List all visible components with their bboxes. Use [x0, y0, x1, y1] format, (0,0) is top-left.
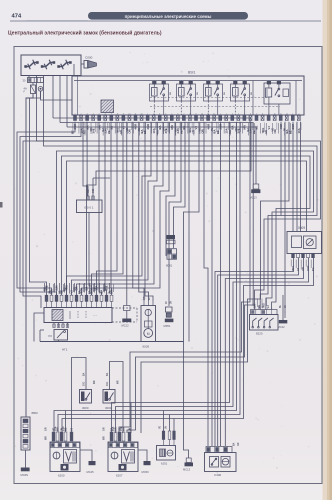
wire drop a	[99, 122, 102, 295]
BSI hatched module	[101, 100, 114, 113]
svg-text:7: 7	[76, 293, 77, 295]
svg-text:МС42: МС42	[278, 325, 286, 329]
BSI pin label ticks	[72, 123, 74, 134]
wire right join drop 281	[280, 122, 282, 216]
ECU box HF1	[44, 308, 112, 323]
wire long cross y171	[87, 122, 252, 295]
svg-text:10: 10	[128, 114, 130, 116]
switch 3001	[103, 390, 115, 404]
ECU sub relay P2	[54, 330, 68, 341]
svg-text:6200: 6200	[58, 474, 65, 478]
wire extra feeder 6207	[130, 403, 132, 434]
splice stack 8D01	[167, 235, 176, 239]
ECU pin label ticks	[44, 283, 46, 293]
BSI relay at 240	[231, 84, 250, 101]
ground MC12	[124, 306, 131, 311]
svg-text:4: 4	[165, 114, 166, 116]
svg-text:BA: BA	[231, 125, 235, 129]
svg-text:3000: 3000	[82, 406, 89, 410]
svg-text:4: 4	[238, 114, 239, 116]
svg-text:8800: 8800	[32, 411, 39, 415]
BSI relay at 159	[150, 84, 169, 101]
svg-text:GR: GR	[45, 427, 48, 431]
svg-text:1: 1	[147, 114, 148, 116]
wire stair continue b	[72, 241, 149, 295]
BSI relay 5 boxed	[264, 83, 290, 104]
BSI dashed link	[150, 97, 268, 99]
svg-text:8D01: 8D01	[166, 264, 173, 268]
connector MP01	[166, 307, 173, 312]
ECU inner marks	[69, 311, 71, 319]
BSI connector pin row	[74, 116, 77, 121]
svg-text:6: 6	[177, 114, 178, 116]
ground MC42	[282, 295, 284, 320]
svg-text:1: 1	[46, 293, 47, 295]
svg-text:принципиальные электрические с: принципиальные электрические схемы	[125, 14, 212, 19]
svg-text:2JN: 2JN	[62, 426, 65, 431]
connector row 8220	[251, 310, 278, 315]
wire battery loop A	[37, 76, 321, 310]
wire ECU sub down	[58, 340, 60, 342]
ECU driver hatched	[52, 310, 63, 321]
BSI inner left divider	[77, 76, 79, 115]
ground MC13 bottom	[184, 342, 189, 459]
svg-text:UB: UB	[87, 189, 90, 193]
wire battery sweep S3	[66, 76, 68, 128]
wire battery sweep S1	[52, 76, 54, 119]
svg-text:BA: BA	[85, 287, 89, 291]
svg-text:2: 2	[153, 114, 154, 116]
svg-text:BE: BE	[110, 125, 114, 129]
svg-text:11: 11	[135, 114, 137, 116]
fuse glyph in BB00	[25, 63, 38, 67]
svg-text:GR: GR	[238, 442, 240, 446]
wire bottom bus 2 from 0009	[116, 258, 309, 433]
svg-text:МС45: МС45	[87, 470, 95, 474]
svg-text:Центральный электрический замо: Центральный электрический замок (бензино…	[8, 30, 162, 37]
wire battery w3	[30, 91, 47, 295]
ECU pins to row	[46, 301, 48, 307]
svg-text:MR: MR	[103, 436, 106, 440]
wire drop d jog	[97, 122, 118, 295]
svg-text:3: 3	[56, 293, 57, 295]
terminal circle	[38, 87, 43, 92]
wire drop b	[105, 122, 107, 295]
wire pin1 left stair	[17, 122, 75, 295]
wire right drop 212	[211, 122, 213, 446]
wire battery w9 to BSI	[73, 64, 75, 76]
paper speckles	[208, 60, 209, 61]
switch pack 8220	[250, 315, 279, 331]
svg-text:3: 3	[232, 114, 233, 116]
svg-text:11: 11	[96, 293, 98, 295]
BSI1 unit box	[72, 76, 304, 115]
header bar	[88, 12, 248, 20]
wire bottom bus 4	[58, 122, 240, 432]
svg-text:30E: 30E	[92, 188, 95, 193]
svg-text:МС13: МС13	[183, 468, 191, 472]
wire 0009 drop 2	[296, 122, 298, 232]
wire 3001 up	[110, 362, 124, 434]
svg-text:2B: 2B	[224, 92, 226, 95]
svg-text:1: 1	[74, 114, 75, 116]
lock unit 6200	[50, 442, 80, 472]
wire bottom bus 1	[112, 122, 230, 433]
svg-text:3VE: 3VE	[120, 426, 123, 431]
svg-text:2: 2	[226, 114, 227, 116]
wire drop c	[110, 122, 113, 295]
svg-text:6207: 6207	[116, 474, 123, 478]
wire stair 151	[142, 122, 151, 236]
connector strip below BB00	[28, 78, 44, 83]
BSI side pins	[252, 81, 254, 116]
lock 6701	[157, 446, 176, 461]
0009 pins	[292, 254, 295, 258]
wire stair 157	[148, 122, 157, 241]
svg-text:BA: BA	[83, 372, 86, 376]
svg-text:BE: BE	[255, 125, 259, 129]
wire right r9 MC42	[284, 122, 286, 318]
svg-text:MR: MR	[45, 436, 48, 440]
svg-text:30G: 30G	[107, 381, 109, 386]
svg-text:2B: 2B	[197, 92, 199, 95]
svg-text:JN: JN	[171, 301, 173, 304]
svg-text:5: 5	[244, 114, 245, 116]
svg-text:2: 2	[81, 114, 82, 116]
svg-text:3001: 3001	[105, 406, 112, 410]
svg-text:7RG: 7RG	[261, 128, 265, 134]
svg-text:МС12: МС12	[122, 324, 130, 328]
wire pin2 left stair	[20, 122, 81, 295]
wire drop to 6026 p2	[139, 122, 149, 301]
svg-text:BSI1: BSI1	[188, 71, 195, 75]
ground МС50	[138, 450, 147, 461]
wire 0001 feed	[93, 177, 110, 179]
svg-text:8: 8	[189, 114, 190, 116]
svg-text:6: 6	[105, 114, 106, 116]
ground MC13 mid	[253, 184, 259, 189]
wire right L1 long	[53, 118, 250, 433]
svg-text:3VE: 3VE	[54, 426, 57, 431]
ground MC6N	[21, 468, 30, 472]
wire drop e jog	[92, 122, 124, 295]
ground МС45	[80, 450, 92, 461]
svg-text:МС6N: МС6N	[21, 473, 29, 477]
ECU dashed extension	[112, 307, 137, 309]
wire stair 175	[166, 122, 175, 256]
pins above 6200	[52, 432, 55, 441]
svg-text:5: 5	[66, 293, 67, 295]
wire 8800 down to MC6N	[25, 450, 27, 468]
supply box BB00	[21, 55, 81, 76]
wire ECU loop D	[62, 156, 311, 310]
wire stair continue a	[67, 236, 143, 295]
svg-text:13: 13	[105, 293, 107, 295]
svg-text:9: 9	[123, 114, 124, 116]
wire stair 163	[154, 122, 163, 246]
wire 3000 up	[72, 358, 87, 433]
svg-text:JN: JN	[166, 426, 168, 429]
wire bottom bus 3	[54, 122, 237, 432]
svg-text:8: 8	[262, 114, 263, 116]
wire battery sweep S2	[59, 76, 61, 123]
wire to MP01	[169, 122, 181, 306]
wire 6701 pins to box	[163, 440, 165, 446]
pump 6026 pins	[143, 301, 145, 306]
svg-text:С400: С400	[214, 473, 222, 477]
svg-text:М: М	[147, 332, 150, 336]
svg-text:VE: VE	[160, 425, 162, 429]
svg-text:10A: 10A	[224, 128, 228, 133]
unit 0009	[287, 232, 322, 254]
svg-text:12: 12	[286, 114, 288, 116]
svg-text:6: 6	[250, 114, 251, 116]
wire 6701 feed 1	[163, 411, 165, 432]
wire drop to 6026 p1	[133, 122, 144, 301]
wire pin3 left stair	[23, 122, 87, 308]
svg-text:GR: GR	[103, 427, 106, 431]
svg-text:10A: 10A	[112, 426, 115, 431]
BSI inner rail	[74, 80, 302, 82]
svg-text:МР01: МР01	[164, 324, 172, 328]
wire battery w2 long left drop	[32, 83, 34, 86]
svg-text:10: 10	[201, 114, 203, 116]
BSI dashed bottom link	[150, 106, 280, 108]
wire battery to BSI lower	[41, 91, 73, 100]
svg-text:2B: 2B	[170, 92, 172, 95]
fuse F4 below BB00	[31, 85, 36, 94]
unit C400	[205, 453, 237, 472]
svg-text:JN: JN	[285, 305, 287, 308]
ECU bottom pins	[53, 323, 55, 328]
svg-text:4: 4	[93, 114, 94, 116]
svg-text:VJ: VJ	[122, 126, 126, 130]
svg-text:2: 2	[298, 114, 299, 116]
pins above 6207	[110, 432, 113, 441]
svg-text:MR: MR	[94, 380, 96, 384]
0009 output wires to C400 bundle	[215, 258, 294, 446]
svg-text:0009: 0009	[298, 226, 305, 230]
wire drop to 6026 p3	[145, 122, 153, 301]
wire to splice stack	[174, 122, 186, 248]
header rule	[10, 20, 321, 22]
fuse glyph in BB00	[42, 63, 55, 67]
svg-text:6026: 6026	[143, 345, 150, 349]
BSI relay at 186	[177, 84, 196, 101]
svg-text:7RG: 7RG	[116, 128, 120, 134]
pins above 6701	[162, 431, 165, 440]
wire center drop 87 to 0001	[86, 122, 88, 196]
wire long center drop2	[184, 122, 200, 342]
svg-text:BE: BE	[182, 125, 186, 129]
wire stair 169	[160, 122, 169, 251]
wire ECU loop E	[67, 161, 307, 295]
svg-text:9: 9	[195, 114, 196, 116]
wire extra feeder 6200	[65, 411, 67, 433]
svg-text:8220: 8220	[256, 332, 263, 336]
wire to MC13 mid	[67, 127, 256, 184]
svg-text:1: 1	[220, 114, 221, 116]
wire bottom bus 5 from 0009	[62, 258, 314, 432]
svg-text:···: ···	[93, 313, 97, 318]
svg-text:7: 7	[256, 114, 257, 116]
svg-text:C000: C000	[85, 56, 93, 60]
svg-text:30G: 30G	[84, 381, 86, 386]
svg-text:5: 5	[171, 114, 172, 116]
svg-text:8: 8	[117, 114, 118, 116]
switch 3000	[80, 390, 92, 404]
wire battery w1	[28, 76, 30, 78]
svg-text:2JN: 2JN	[55, 286, 59, 291]
svg-text:НГ1: НГ1	[62, 348, 68, 352]
wire drop to MC12	[126, 122, 128, 306]
connector 0001	[77, 200, 103, 213]
svg-text:12: 12	[213, 114, 215, 116]
wire ECU loop C	[57, 151, 314, 310]
svg-text:11: 11	[207, 114, 209, 116]
left edge mark	[0, 202, 3, 208]
connector C000	[84, 61, 88, 69]
wire battery loop B	[44, 76, 318, 310]
wire right L2 long	[60, 123, 253, 434]
svg-text:5: 5	[99, 114, 100, 116]
fuse glyph in BB00	[58, 63, 71, 67]
svg-text:3: 3	[87, 114, 88, 116]
svg-text:474: 474	[12, 14, 22, 20]
ECU bottom bus	[40, 341, 184, 343]
svg-text:Р2: Р2	[49, 334, 53, 338]
lock unit 6207	[108, 442, 138, 472]
wire right drop 220	[219, 122, 221, 446]
svg-text:МС50: МС50	[142, 470, 150, 474]
svg-text:12: 12	[140, 114, 142, 116]
wire stair continue c	[77, 246, 155, 295]
svg-text:10: 10	[274, 114, 276, 116]
wire right L3 long	[141, 122, 289, 433]
svg-text:7: 7	[183, 114, 184, 116]
wire 0009 drop 3	[300, 122, 302, 232]
svg-text:МС13: МС13	[250, 196, 258, 200]
svg-text:MR: MR	[144, 296, 146, 300]
svg-text:MR: MR	[118, 380, 120, 384]
wire 6701 feed 2	[169, 415, 171, 432]
svg-text:9: 9	[268, 114, 269, 116]
pump 6026	[141, 306, 156, 342]
svg-text:9: 9	[86, 293, 87, 295]
wire 0001 output	[89, 213, 92, 296]
svg-text:3: 3	[159, 114, 160, 116]
svg-text:JN: JN	[129, 428, 132, 431]
wire 0009 drop 1	[292, 122, 294, 232]
svg-text:7: 7	[111, 114, 112, 116]
svg-text:BA: BA	[106, 372, 109, 376]
svg-text:VJ: VJ	[194, 126, 198, 130]
svg-text:1: 1	[292, 114, 293, 116]
BSI relay at 213	[204, 84, 223, 101]
ECU pin row	[45, 295, 48, 301]
wire ECU left feeds	[34, 313, 44, 342]
wire stair continue d	[82, 251, 161, 295]
connector strip 8800	[21, 417, 30, 450]
wire pump to bus	[147, 341, 149, 344]
wire BB00 to C000	[81, 63, 84, 65]
wire 6701 feed 3	[173, 419, 175, 432]
svg-text:11: 11	[280, 114, 282, 116]
wire right drop 204	[204, 122, 208, 446]
connector row C400	[206, 447, 232, 453]
svg-text:BA: BA	[158, 125, 162, 129]
svg-text:6Ј01: 6Ј01	[161, 462, 168, 466]
svg-text:0 0 0 1: 0 0 0 1	[84, 206, 94, 210]
page right edge shadow	[323, 0, 328, 500]
svg-text:10A: 10A	[152, 128, 156, 133]
svg-text:VJ: VJ	[267, 126, 271, 130]
svg-text:BA: BA	[233, 442, 236, 446]
wire long center drop1	[188, 122, 190, 342]
